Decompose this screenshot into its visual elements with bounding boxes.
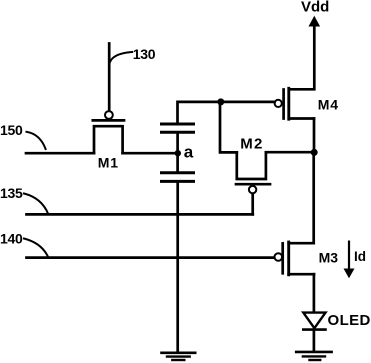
M3 gate bar — [281, 243, 284, 273]
transistor M2 (bump style, gate below) — [236, 152, 311, 214]
power arrow to Vdd — [309, 16, 321, 27]
M4 channel bar — [287, 88, 290, 119]
leader 130 — [110, 52, 132, 63]
wire C1 lower plate to node a — [176, 133, 179, 153]
svg-text:135: 135 — [0, 185, 23, 201]
M2 right terminal wire to node — [266, 151, 311, 154]
wire gate node down to M2 left terminal — [220, 102, 237, 152]
transistor M1 (bump style, gate above) — [93, 44, 124, 154]
M1 channel bump — [94, 126, 123, 153]
diode OLED cathode bar — [303, 328, 325, 331]
junction dot: node a — [175, 150, 181, 156]
wire node down to M3 drain — [312, 152, 315, 243]
wire 140 row to M3 gate — [27, 256, 275, 259]
transistor M3 — [275, 242, 315, 275]
svg-text:M2: M2 — [240, 136, 263, 153]
M2 channel bump — [237, 152, 266, 179]
svg-text:140: 140 — [0, 230, 23, 246]
diode OLED triangle — [303, 313, 325, 329]
junction dot: M4 drain / M2 / M3 drain node — [311, 149, 318, 156]
wire M4 drain down to node — [313, 119, 316, 153]
ground right — [296, 352, 331, 360]
svg-text:150: 150 — [0, 122, 23, 138]
svg-text:Id: Id — [354, 249, 366, 264]
wire 150 input row — [26, 152, 94, 155]
M3 source lead — [289, 273, 314, 276]
current arrow Id line — [348, 242, 350, 269]
ground left — [162, 353, 196, 360]
wire M1 drain to node a — [123, 152, 176, 155]
M1 gate lead up to 130 — [108, 44, 111, 111]
svg-text:M3: M3 — [319, 250, 339, 266]
capacitor C2 upper plate — [162, 171, 194, 174]
wire Vdd rail down to M4 source — [289, 25, 314, 90]
leader 135 — [24, 194, 48, 214]
M2 gate bar — [236, 183, 270, 186]
wire top rail (cap C1 top to M4 gate) — [178, 102, 275, 124]
M2 gate lead down to 135 row — [251, 194, 254, 215]
svg-text:M4: M4 — [318, 97, 339, 113]
leader 140 — [24, 239, 48, 257]
wire OLED cathode down to ground — [313, 330, 316, 352]
wire 135 row — [27, 213, 253, 216]
current arrow Id head — [344, 269, 355, 279]
wire node a down to C2 — [176, 154, 179, 172]
M3 drain lead — [289, 242, 314, 245]
M1 gate bubble — [105, 111, 113, 119]
wire C2 lower plate down to ground — [176, 182, 179, 352]
svg-text:M1: M1 — [98, 155, 119, 171]
capacitor C2 lower plate — [162, 180, 194, 183]
svg-text:Vdd: Vdd — [301, 0, 329, 16]
M4 gate bubble — [275, 100, 282, 107]
M4 drain lead — [289, 117, 314, 120]
M3 channel bar — [287, 242, 290, 275]
junction dot: gate node on top rail — [217, 98, 224, 105]
M3 gate bubble — [275, 253, 283, 261]
svg-text:OLED: OLED — [328, 312, 371, 329]
leader 150 — [27, 132, 46, 149]
svg-text:130: 130 — [133, 46, 156, 62]
capacitor C1 upper plate — [162, 123, 194, 126]
M1 gate bar — [93, 119, 124, 122]
M4 gate bar — [282, 90, 285, 119]
svg-text:a: a — [184, 143, 194, 162]
transistor M4 — [275, 88, 314, 119]
capacitor C1 lower plate — [162, 131, 194, 134]
M2 gate bubble — [249, 186, 256, 193]
wire M3 source down to OLED anode — [313, 274, 316, 312]
